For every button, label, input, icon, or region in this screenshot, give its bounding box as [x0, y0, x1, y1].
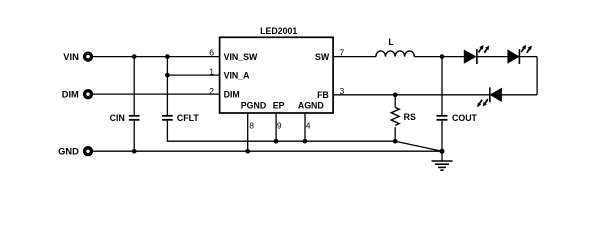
terminal DIM [83, 89, 93, 99]
svg-text:L: L [388, 37, 394, 47]
wire corner to LED D3 [501, 94, 537, 96]
svg-text:PGND: PGND [241, 100, 266, 110]
svg-text:VIN_A: VIN_A [224, 70, 251, 80]
junction AGND pin/AGND rail [303, 139, 308, 144]
svg-text:EP: EP [273, 100, 285, 110]
svg-text:VIN_SW: VIN_SW [224, 52, 258, 62]
svg-text:SW: SW [315, 52, 330, 62]
junction PGND/GND rail [245, 149, 250, 154]
svg-text:4: 4 [306, 121, 311, 131]
svg-text:7: 7 [340, 47, 345, 57]
svg-text:9: 9 [277, 121, 282, 131]
terminal VIN [83, 51, 93, 61]
inductor L [376, 51, 414, 57]
junction VIN/CFLT [165, 54, 170, 59]
svg-text:1: 1 [209, 67, 214, 77]
wire right edge down [536, 57, 538, 95]
LED D2 [508, 45, 532, 64]
wire pin 4 AGND down [304, 113, 306, 141]
wire SW to inductor [333, 56, 376, 58]
svg-text:6: 6 [209, 47, 214, 57]
wire AGND diagonal to ground node [395, 141, 442, 151]
svg-text:DIM: DIM [224, 89, 240, 99]
svg-text:CIN: CIN [110, 113, 125, 123]
junction CIN/GND rail [132, 149, 137, 154]
wire AGND rail [167, 140, 395, 142]
wire pin 8 PGND down [247, 113, 249, 151]
wire D1 to D2 [477, 56, 508, 58]
junction SW node / COUT [440, 54, 445, 59]
wire DIM to pin 2 [93, 93, 220, 95]
op-amp U1 LED2001 body [220, 37, 334, 113]
wire pin 9 EP down [275, 113, 277, 141]
junction VIN/CIN [132, 54, 137, 59]
capacitor CIN [129, 57, 140, 152]
junction FB/RS [393, 92, 398, 97]
junction VIN_A branch [165, 73, 170, 78]
svg-text:CFLT: CFLT [177, 113, 199, 123]
wire FB line [333, 94, 490, 96]
svg-text:DIM: DIM [62, 89, 79, 99]
wire inductor to LED D1 [414, 56, 464, 58]
wire D2 to right corner [519, 56, 537, 58]
svg-text:8: 8 [249, 121, 254, 131]
junction RS/AGND rail [393, 139, 398, 144]
svg-text:2: 2 [209, 86, 214, 96]
junction EP/AGND rail [274, 139, 279, 144]
svg-text:LED2001: LED2001 [260, 26, 297, 36]
terminal GND [83, 146, 93, 156]
LED D1 [464, 45, 489, 64]
resistor RS [391, 95, 399, 141]
wire GND rail [93, 150, 442, 152]
svg-text:FB: FB [317, 90, 329, 100]
wire VIN_A branch to pin 1 [167, 74, 219, 76]
LED D3 [477, 87, 501, 107]
svg-text:AGND: AGND [298, 100, 324, 110]
wire VIN to pin 6 [93, 56, 220, 58]
svg-text:VIN: VIN [63, 52, 79, 62]
capacitor COUT [437, 57, 448, 152]
svg-text:GND: GND [58, 147, 79, 157]
junction ground node [440, 149, 445, 154]
svg-text:RS: RS [404, 112, 416, 122]
capacitor CFLT [162, 57, 173, 142]
svg-text:COUT: COUT [452, 113, 478, 123]
ground [432, 151, 453, 170]
